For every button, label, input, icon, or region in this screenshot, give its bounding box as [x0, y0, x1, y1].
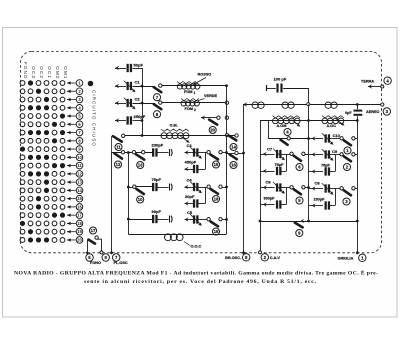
wire osc box right edge [226, 136, 228, 235]
matrix row 8 [20, 138, 83, 145]
svg-text:GRIGLIA: GRIGLIA [338, 256, 354, 260]
wire pair vertical C7 [286, 154, 288, 171]
wire input row C2 [115, 103, 126, 105]
junction bottom bus mid [307, 220, 310, 223]
arrow 75pF aoc [312, 169, 316, 174]
terminal 8 BR.OSC [243, 254, 250, 261]
wire 450pF right [198, 169, 205, 171]
wire C7 row [260, 154, 275, 156]
arrow C6 row [263, 185, 267, 190]
contact switch 1 left [340, 137, 343, 140]
border contact TERRA [381, 85, 384, 88]
wire to aereo cap [357, 105, 359, 110]
wire 75pF aoc right [330, 171, 335, 173]
coil A.OM [273, 118, 301, 124]
svg-text:230pF: 230pF [314, 198, 326, 202]
wire pair vertical C9 [335, 155, 337, 172]
wire 90pF row [128, 219, 153, 221]
wire switch 4 row [268, 138, 287, 140]
svg-text:OM2: OM2 [55, 66, 60, 79]
svg-text:A.OM: A.OM [277, 124, 287, 128]
arrow C3 row [185, 150, 189, 155]
wire 100pF down to tap [308, 88, 310, 103]
coil O.O.C oscillator [165, 234, 184, 241]
contact switch 1 right [352, 137, 355, 140]
switch S2 arm [344, 156, 351, 161]
wire aerial line start [243, 104, 307, 106]
svg-text:FONO: FONO [23, 62, 28, 80]
svg-text:12: 12 [116, 162, 121, 167]
svg-text:75pF: 75pF [152, 177, 162, 182]
capacitor 75pF osc [153, 183, 156, 191]
terminal 1 GRIGLIA [359, 254, 366, 261]
svg-text:1: 1 [194, 91, 196, 95]
junction inner vertical 75pF [127, 186, 130, 189]
padder arc 230pF [170, 149, 173, 156]
wire switch 7 to FOM1 [162, 85, 227, 87]
matrix row 19 [20, 228, 83, 235]
junction FOM bus top [225, 84, 228, 87]
wire 20pF to C4 row [205, 187, 207, 204]
contact switch 5 right [302, 186, 305, 189]
terminal 4 TERRA [384, 77, 391, 84]
svg-text:O.M.: O.M. [170, 124, 178, 128]
junction switch 5 right [307, 186, 310, 189]
svg-text:OC2: OC2 [39, 66, 44, 79]
switch S13 arm [136, 154, 144, 159]
capacitor 100pF [278, 84, 282, 93]
svg-text:PL.OSC: PL.OSC [114, 261, 128, 265]
svg-text:18: 18 [77, 221, 82, 226]
wire y153 to contact [227, 153, 235, 155]
matrix row 7 [20, 129, 83, 136]
wire AOM/AOC shared vertical [308, 105, 310, 222]
wire pair vertical C8 [335, 189, 337, 206]
switch S11 arm [113, 136, 122, 141]
core FOM1 [177, 82, 198, 84]
svg-text:19: 19 [77, 229, 82, 234]
matrix row 18 [20, 220, 83, 227]
svg-text:10: 10 [138, 197, 143, 202]
svg-text:O.O.C: O.O.C [191, 245, 202, 249]
wire 230pF aoc right [330, 205, 335, 207]
junction box right top [225, 151, 228, 154]
junction bottom bus left [259, 220, 262, 223]
svg-text:11: 11 [116, 145, 121, 150]
arrow switch 20 [201, 115, 205, 120]
switch S19 arm [211, 189, 219, 194]
svg-text:C.A.V: C.A.V [270, 256, 281, 260]
trimmer arrow C7 [273, 149, 285, 161]
contact switch 14 [235, 134, 238, 137]
switch number 14 [230, 143, 237, 150]
padder arc 75pF [170, 184, 173, 191]
svg-text:230pF: 230pF [152, 142, 164, 147]
contact switch 3 right [352, 187, 355, 190]
switch number 17 [89, 227, 96, 234]
coil A.OC [322, 118, 344, 124]
wire 75pF row [128, 187, 133, 189]
matrix row 13 [20, 179, 83, 186]
switch S12 arm [114, 153, 122, 158]
inline arrow switch 9 [301, 219, 305, 224]
wire TERRA [368, 86, 382, 88]
core FOM2 [181, 99, 199, 101]
coil FOM2 [181, 101, 199, 106]
capacitor C1 variable [128, 82, 131, 90]
matrix row 16 [20, 204, 83, 211]
core A.OM [273, 116, 301, 118]
switch number 10 [137, 196, 144, 203]
wire pair vertical C6 [286, 188, 288, 205]
legend: circuito chiuso [88, 81, 97, 147]
coil aerial 2 [282, 102, 294, 108]
svg-text:FOM: FOM [185, 107, 193, 111]
svg-text:12: 12 [77, 171, 82, 176]
junction switch 4 right [307, 137, 310, 140]
wire 20pF right [198, 203, 205, 205]
contact switch 18 right [219, 218, 222, 221]
wire vertical input bus [142, 68, 144, 136]
arrow C10 row [312, 136, 316, 141]
arrow C4 row [185, 185, 189, 190]
contact bus OM line [225, 134, 228, 137]
padder arc 90pF [170, 216, 173, 223]
capacitor 230pF [153, 148, 156, 156]
svg-text:VERDE: VERDE [204, 94, 218, 98]
capacitor 50pF [128, 64, 131, 72]
junction aerial/AEREO cap [356, 103, 359, 106]
contact switch 2 left [340, 153, 343, 156]
switch number 18 [212, 228, 219, 235]
contact switch 10 [133, 185, 136, 188]
switch number 13 [137, 161, 144, 168]
capacitor 6pF aereo [354, 110, 363, 112]
junction AOM right [307, 119, 310, 122]
arrow 230pF aoc [312, 203, 316, 208]
svg-text:OM1: OM1 [63, 66, 68, 79]
wire bottom bus [260, 221, 357, 223]
trimmer arrow C4 [190, 182, 202, 194]
contact switch 7 [159, 84, 162, 87]
wire aerial line to border [310, 104, 381, 106]
svg-text:C2: C2 [135, 96, 141, 101]
input arrow C1 [115, 84, 119, 89]
svg-text:20pF: 20pF [185, 194, 195, 199]
coil OM [161, 133, 189, 139]
capacitor C4 variable [194, 183, 197, 191]
switch number 11 [115, 143, 122, 150]
svg-text:OC1: OC1 [47, 66, 52, 79]
trimmer arrow C8 [322, 183, 334, 195]
matrix row 9 [20, 146, 83, 153]
contact switch 16 [235, 151, 238, 154]
core OM [161, 129, 189, 131]
svg-text:16: 16 [77, 204, 82, 209]
terminal node 1 [356, 251, 359, 254]
coil aerial 1 [252, 102, 264, 108]
arrow C5 row [185, 217, 189, 222]
terminal node 8 [242, 251, 245, 254]
wire AOC coil lead [310, 120, 357, 122]
svg-text:AEREO: AEREO [366, 110, 380, 114]
contact switch 6 right [302, 152, 305, 155]
svg-text:75pF: 75pF [321, 164, 331, 168]
svg-text:NOVA RADIO - GRUPPO ALTA FREQU: NOVA RADIO - GRUPPO ALTA FREQUENZA Mod F… [14, 268, 378, 276]
wire FONO terminal 5 [87, 240, 89, 253]
svg-text:13: 13 [138, 163, 143, 168]
wire input row 250pF [115, 120, 126, 122]
wire 330pF right [281, 204, 286, 206]
svg-text:FONO: FONO [90, 261, 101, 265]
svg-text:ROSSO: ROSSO [198, 72, 212, 76]
arrow 75pF aom [263, 169, 267, 174]
wire 75pF aom right [281, 171, 286, 173]
junction bus row 250pF [141, 119, 144, 122]
switch S8 arm [154, 104, 162, 109]
junction bus to OM line [141, 134, 144, 137]
capacitor 90pF [153, 215, 156, 223]
svg-text:90pF: 90pF [152, 209, 162, 214]
trimmer arrow C2 [124, 98, 136, 110]
capacitor 75pF aoc [326, 167, 329, 175]
switch S20 arm [209, 120, 217, 125]
terminal 7 [113, 254, 120, 261]
svg-text:50pF: 50pF [134, 63, 144, 68]
terminal 5 [86, 254, 93, 261]
wire C2 to switch 8 [133, 103, 156, 105]
wire switch 8 to FOM2 [162, 102, 227, 104]
switch number 4 [284, 128, 291, 135]
wire OM line [124, 135, 235, 137]
terminal 6 [102, 254, 109, 261]
junction bus row C2 [141, 102, 144, 105]
contact switch 8 [159, 101, 162, 104]
arrow aerial line [243, 102, 247, 107]
svg-text:17: 17 [77, 213, 82, 218]
switch S10 arm [137, 189, 144, 194]
switch number 9 [296, 229, 303, 236]
switch S3 arm [344, 190, 351, 195]
wire osc box inner vertical [128, 153, 130, 235]
switch S18 arm [211, 222, 219, 227]
matrix row 2 [20, 88, 83, 95]
junction AOC right [356, 119, 359, 122]
switch S9 arm [295, 223, 303, 228]
svg-text:18: 18 [214, 229, 219, 234]
switch number 15 [212, 161, 219, 168]
terminal node 6 [100, 251, 103, 254]
contact switch 3 left [340, 187, 343, 190]
contact switch 20 bus [225, 116, 228, 119]
dashed schematic border [21, 52, 382, 253]
junction bus row C1 [141, 85, 144, 88]
svg-text:FOM: FOM [184, 90, 192, 94]
trimmer arrow C1 [124, 81, 136, 93]
svg-text:C6: C6 [266, 180, 272, 185]
contact switch 6 left [290, 152, 293, 155]
coil aerial 3 [325, 102, 337, 108]
wire AOM coil lead [260, 120, 309, 122]
wire to switch 20 [201, 117, 217, 119]
capacitor 75pF aom [277, 167, 280, 175]
arrow C7 row [263, 152, 267, 157]
terminal node 2 [259, 251, 262, 254]
core A.OC [322, 116, 344, 118]
wire FOM bus vertical [226, 86, 228, 136]
contact switch 12 [121, 151, 124, 154]
svg-text:C9: C9 [332, 149, 338, 154]
arrow C8 row [312, 186, 316, 191]
capacitor 230pF aoc [326, 201, 329, 209]
switch S4 arm [281, 140, 288, 145]
svg-text:C4: C4 [187, 178, 193, 183]
junction inner vertical 90pF [127, 218, 130, 221]
contact switch 11 top [122, 134, 125, 137]
svg-text:OC3: OC3 [31, 66, 36, 79]
switch S6 arm [294, 156, 301, 161]
contact switch 4 [287, 137, 290, 140]
wire 100pF right lead [283, 88, 308, 90]
arrow 20pF [185, 201, 189, 206]
svg-text:450pF: 450pF [185, 160, 197, 165]
switch number 6 [296, 163, 303, 170]
capacitor C8 variable [326, 184, 329, 192]
contact switch 19 right [219, 185, 222, 188]
capacitor 250pF [128, 116, 131, 124]
trimmer arrow C9 [322, 149, 334, 161]
switch S16 arm [230, 154, 237, 159]
matrix row 20 [20, 237, 83, 244]
trimmer arrow C3 [190, 147, 202, 159]
junction box right C5 [225, 218, 228, 221]
matrix row 11 [20, 162, 83, 169]
contact switch 15 right [219, 151, 222, 154]
contact switch 13 right [142, 151, 145, 154]
matrix row 1 [20, 80, 83, 87]
wire 50pF to bus [133, 68, 142, 70]
input arrow C2 [115, 101, 119, 106]
contact switch 15 left [207, 151, 210, 154]
svg-text:75pF: 75pF [275, 163, 285, 167]
capacitor C9 variable [326, 150, 329, 158]
switch S15 arm [211, 155, 219, 160]
matrix row 3 [20, 96, 83, 103]
capacitor C2 variable [128, 99, 131, 107]
switch S5 arm [294, 189, 301, 194]
contact switch 2 right [352, 153, 355, 156]
capacitor C7 variable [277, 150, 280, 158]
svg-text:A.OC: A.OC [327, 124, 337, 128]
switch number 2 [343, 163, 350, 170]
switch S7 arm [154, 87, 162, 92]
capacitor 20pF [194, 199, 197, 207]
svg-text:13: 13 [77, 180, 82, 185]
svg-text:15: 15 [77, 196, 82, 201]
switch number 1 [344, 147, 351, 154]
capacitor C3 variable [194, 148, 197, 156]
capacitor 330pF [277, 200, 280, 208]
svg-text:16: 16 [231, 163, 236, 168]
arrow 330pF [263, 202, 267, 207]
arrow C9 row [312, 152, 316, 157]
wire AOM left edge / C.A.V vertical [260, 121, 262, 253]
switch number 3 [343, 198, 350, 205]
wire osc box left edge / PL.OSC [111, 152, 113, 253]
switch S14 arm [229, 136, 237, 141]
matrix row 12 [20, 171, 83, 178]
contact FOM2 bus [225, 101, 228, 104]
svg-text:TERRA: TERRA [361, 79, 374, 83]
svg-text:CIRCUITO CHIUSO: CIRCUITO CHIUSO [92, 90, 97, 147]
junction inner vertical top [127, 151, 130, 154]
switch S17 arm FONO [89, 240, 96, 244]
wire 250pF to bus [133, 120, 142, 122]
contact switch 17 [95, 236, 98, 239]
junction aerial tap [307, 103, 310, 106]
contact switch 20 [217, 116, 220, 119]
matrix row 15 [20, 195, 83, 202]
wire GRIGLIA vertical / AOC right edge [357, 116, 359, 253]
svg-text:19: 19 [214, 197, 219, 202]
switch number 20 [209, 126, 216, 133]
matrix row 5 [20, 113, 83, 120]
wire input row 50pF [115, 68, 126, 70]
switch S1 arm [344, 140, 351, 145]
junction bottom bus right [356, 220, 359, 223]
junction box right C4 [225, 186, 228, 189]
switch number 8 [153, 111, 160, 118]
terminal node 5 [86, 252, 88, 254]
contact switch 19 left [207, 185, 210, 188]
capacitor C6 variable [277, 183, 280, 191]
svg-text:BR.OSC.: BR.OSC. [225, 256, 241, 260]
svg-text:330pF: 330pF [264, 197, 276, 201]
svg-text:11: 11 [77, 163, 82, 168]
trimmer arrow C5 [190, 214, 202, 226]
svg-text:10: 10 [77, 155, 82, 160]
junction BR.OSC bus [242, 152, 245, 155]
wire AOM tap down [268, 121, 270, 139]
svg-text:sente in alcuni ricevitori, pe: sente in alcuni ricevitori, per es. Voce… [84, 279, 317, 285]
svg-text:14: 14 [77, 188, 82, 193]
wire contact to BR.OSC bus [238, 153, 243, 155]
terminal node 7 [110, 251, 113, 254]
svg-text:14: 14 [231, 145, 236, 150]
wire BR.OSC vertical [243, 105, 245, 253]
svg-text:C7: C7 [267, 147, 273, 152]
wire 100pF left lead [267, 88, 276, 90]
capacitor C5 variable [194, 215, 197, 223]
switch number 5 [296, 197, 303, 204]
contact switch 5 left [290, 186, 293, 189]
svg-text:100 pF: 100 pF [274, 77, 287, 82]
input arrow 250pF [115, 118, 119, 123]
border contact AEREO [381, 103, 384, 106]
contact switch 18 left [207, 218, 210, 221]
svg-text:6pF: 6pF [345, 111, 352, 115]
terminal 2 C.A.V [261, 254, 268, 261]
svg-text:C10: C10 [333, 133, 341, 138]
wire osc box top line [112, 152, 154, 154]
svg-text:20: 20 [77, 237, 82, 242]
wire C1 to switch 7 [133, 86, 156, 88]
matrix row 14 [20, 187, 83, 194]
coil FOM1 [177, 84, 200, 89]
svg-text:2: 2 [194, 108, 196, 112]
wire osc box bottom [128, 234, 226, 236]
switch number 7 [153, 94, 160, 101]
